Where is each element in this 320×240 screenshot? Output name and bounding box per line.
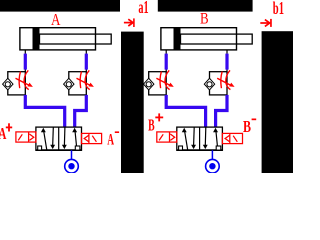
pilot actuator A- (pilot box of valve A) (82, 133, 102, 143)
wire cylinder B port 1 (165, 54, 168, 70)
supply line valve A (71, 150, 73, 159)
middle black column (121, 32, 144, 173)
svg-text:A: A (107, 132, 114, 149)
directional valve B (5/2 way, body) (177, 127, 223, 150)
flow control valve A2 (one-way flow control) (64, 70, 94, 94)
cylinder B port stubs (166, 50, 227, 72)
pilot actuator B- (pilot box of valve B) (222, 133, 242, 143)
svg-text:b1: b1 (273, 0, 284, 18)
right black region (262, 31, 293, 173)
wire cylinder B port 2 (225, 54, 228, 70)
directional valve A (5/2 way, body) (36, 127, 82, 150)
wire B2 to valve B port 2 (216, 95, 227, 128)
wire A1 to valve A port 4 (25, 95, 64, 128)
flow control valve A1 (one-way flow control) (3, 70, 33, 94)
svg-text:A: A (51, 10, 61, 29)
limit switch arrow b1 (260, 20, 269, 27)
cylinder A (double-acting) (20, 28, 111, 50)
cylinder A port stubs (25, 50, 86, 72)
top black bar left segment (0, 0, 120, 12)
wire B1 to valve B port 4 (166, 95, 205, 128)
svg-text:B: B (243, 117, 251, 136)
wire cylinder A port 1 (24, 54, 27, 70)
pilot actuator B+ (pilot box of valve B) (157, 132, 177, 142)
supply line valve B (211, 150, 213, 159)
flow control valve B2 (one-way flow control) (204, 70, 234, 94)
compressed air source B (206, 159, 220, 173)
svg-text:a1: a1 (138, 0, 148, 17)
svg-text:B: B (200, 11, 209, 28)
svg-text:B: B (148, 115, 155, 134)
flow control valve B1 (one-way flow control) (144, 70, 174, 94)
compressed air source A (65, 159, 79, 173)
pilot actuator A+ (pilot box of valve A) (16, 132, 36, 142)
limit switch arrow a1 (124, 19, 133, 26)
top black bar middle segment (158, 0, 253, 12)
wire A2 to valve A port 2 (75, 95, 87, 128)
wire cylinder A port 2 (85, 54, 88, 70)
cylinder B (double-acting) (161, 28, 252, 50)
